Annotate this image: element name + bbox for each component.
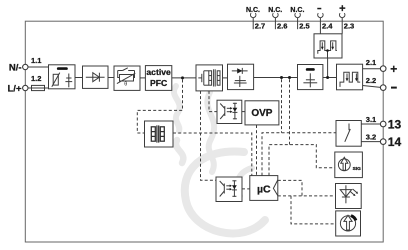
switching transistor + transformer block Q1/T1	[196, 65, 223, 91]
active PFC block	[145, 66, 171, 91]
svg-text:OVP: OVP	[251, 108, 272, 119]
wire (output bus)	[254, 77, 298, 79]
wire 1.2	[28, 87, 49, 89]
svg-text:13: 13	[388, 117, 402, 131]
dashed wire aux to uC	[173, 133, 252, 176]
dashed wire output sense to relay line	[281, 79, 283, 133]
dashed wire to potentiometer	[291, 196, 336, 224]
optocoupler U2	[217, 100, 242, 123]
node (sense tap 1)	[280, 76, 283, 79]
node (junction after PFC)	[181, 76, 184, 79]
svg-text:3.1: 3.1	[366, 115, 376, 124]
wire	[223, 77, 228, 79]
terminal 13	[380, 121, 386, 127]
svg-text:2.3: 2.3	[344, 22, 354, 31]
dashed wire uC to signal path	[269, 145, 335, 176]
input filter block (varistor + capacitor)	[49, 65, 76, 89]
terminal 14	[380, 139, 386, 145]
OVP block	[245, 101, 279, 125]
device outline	[25, 21, 383, 242]
svg-text:2.4: 2.4	[322, 22, 333, 31]
wire	[172, 77, 196, 79]
svg-text:N.C.: N.C.	[246, 7, 260, 14]
output regulator block U6	[337, 64, 363, 90]
svg-text:1.2: 1.2	[31, 74, 41, 83]
dashed wire transformer to opto 2	[201, 91, 217, 180]
svg-text:N/-: N/-	[9, 63, 22, 74]
rectifier diode block	[83, 66, 109, 88]
dashed wire transformer to opto 1	[209, 91, 217, 112]
terminal 2.6 N.C.	[268, 7, 287, 31]
wire 2.1	[363, 68, 381, 70]
svg-text:active: active	[146, 67, 171, 77]
wire 3.2	[361, 141, 380, 143]
svg-text:2.6: 2.6	[277, 22, 287, 31]
terminal 2.7 N.C.	[246, 7, 265, 31]
remote on/off block U5	[314, 34, 342, 58]
terminal 2.2	[380, 85, 386, 91]
fuse F1	[32, 85, 45, 90]
label minus	[391, 87, 397, 89]
output rectifier diode + capacitor block	[228, 64, 254, 89]
wire	[75, 77, 83, 79]
node	[326, 76, 329, 79]
auxiliary transformer T2	[145, 121, 174, 147]
microcontroller uC	[250, 176, 278, 201]
dashed wire opto2 to uC	[242, 188, 250, 190]
svg-text:N.C.: N.C.	[268, 7, 282, 14]
wire	[323, 77, 337, 79]
wire 2.2	[363, 86, 381, 88]
terminal 2.1	[380, 66, 386, 72]
optocoupler U3	[216, 177, 242, 202]
LED indicator block	[336, 184, 362, 209]
wire 3.1	[361, 123, 380, 125]
dashed wire output sense 2	[289, 79, 291, 144]
wire	[108, 77, 114, 79]
electrolytic capacitor block C1	[298, 65, 323, 90]
relay K1	[336, 121, 361, 147]
dashed wire OVP to uC	[256, 125, 258, 176]
svg-text:2.7: 2.7	[255, 22, 265, 31]
terminal 2.4 minus	[317, 8, 333, 34]
signal output block SIG	[335, 152, 363, 178]
svg-text:µC: µC	[257, 183, 271, 195]
wire (remote block drop)	[327, 58, 329, 78]
dashed feedback: junction to aux transformer	[137, 80, 182, 134]
svg-text:14: 14	[388, 135, 402, 149]
terminal 2.3 plus	[339, 3, 354, 34]
wire opto1 to OVP	[242, 111, 245, 113]
svg-text:SIG: SIG	[353, 166, 362, 172]
svg-text:θ: θ	[124, 81, 127, 87]
svg-text:N.C.: N.C.	[290, 7, 304, 14]
node (sense tap 2)	[288, 76, 291, 79]
potentiometer block	[336, 211, 361, 236]
watermark swirl	[174, 86, 265, 233]
svg-text:PFC: PFC	[150, 78, 167, 88]
svg-text:2.1: 2.1	[366, 58, 376, 67]
svg-text:+: +	[390, 62, 397, 76]
dashed wire uC to relay	[262, 133, 336, 176]
svg-text:2.5: 2.5	[299, 22, 309, 31]
svg-text:2.2: 2.2	[366, 76, 376, 85]
svg-text:3.2: 3.2	[366, 132, 376, 141]
terminal N/-	[9, 63, 28, 74]
inrush limiter / thermistor block	[114, 66, 140, 90]
wire	[140, 77, 145, 79]
wire 1.1	[28, 66, 49, 68]
dashed wire uC to LED	[278, 180, 336, 196]
svg-text:L/+: L/+	[8, 84, 22, 95]
svg-text:+: +	[339, 3, 345, 15]
terminal 2.5 N.C.	[290, 7, 309, 31]
terminal L/+	[8, 84, 28, 95]
svg-text:1.1: 1.1	[31, 56, 41, 65]
